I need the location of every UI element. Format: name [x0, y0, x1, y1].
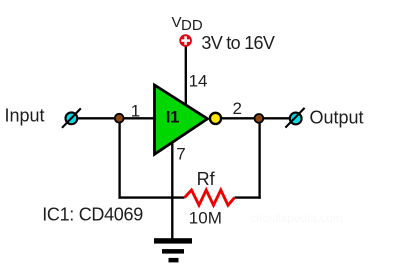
- inverter I1 output inversion bubble: [210, 113, 221, 124]
- svg-text:Input: Input: [5, 106, 45, 126]
- wire: feedback bottom horizontal to resistor: [119, 196, 185, 198]
- wire: inverter output bubble to output terminal: [221, 117, 290, 119]
- output terminal connector: [285, 108, 304, 128]
- resistor Rf zigzag: [185, 190, 235, 205]
- svg-text:3V to 16V: 3V to 16V: [201, 33, 274, 53]
- node B: output junction dot: [255, 114, 264, 123]
- wire: feedback left vertical from input node: [118, 118, 120, 198]
- svg-text:IC1: CD4069: IC1: CD4069: [42, 205, 143, 225]
- svg-text:10M: 10M: [189, 208, 222, 227]
- wire: input terminal to inverter pin 1: [77, 117, 155, 119]
- wire: VDD supply down to pin 14: [185, 47, 187, 107]
- wire: pin 7 down to ground: [171, 142, 173, 240]
- svg-text:Rf: Rf: [197, 169, 216, 189]
- node A: input junction dot: [115, 114, 124, 123]
- wire: resistor right stub: [235, 196, 261, 198]
- svg-text:Output: Output: [310, 108, 364, 128]
- svg-text:1: 1: [131, 101, 140, 120]
- svg-text:V: V: [172, 14, 182, 31]
- svg-text:2: 2: [233, 99, 242, 118]
- wire: feedback right vertical up to output node: [258, 118, 260, 198]
- input terminal connector: [62, 108, 81, 127]
- svg-text:14: 14: [189, 71, 208, 90]
- label VDD: [172, 14, 203, 34]
- svg-text:DD: DD: [181, 17, 203, 34]
- ground: [154, 238, 192, 262]
- inverter I1 (CD4069 gate) triangle body: [155, 85, 208, 154]
- svg-text:7: 7: [176, 145, 185, 164]
- power terminal VDD (red plus): [179, 34, 192, 47]
- svg-text:I1: I1: [166, 108, 179, 127]
- svg-text:circuitspedia.com: circuitspedia.com: [250, 211, 343, 225]
